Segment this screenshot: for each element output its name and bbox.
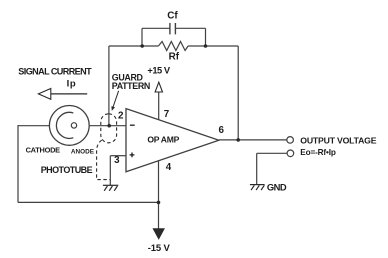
svg-text:PATTERN: PATTERN	[112, 81, 150, 91]
wire: feedback left vertical to node A	[108, 46, 110, 126]
svg-text:7: 7	[164, 109, 170, 120]
svg-text:OUTPUT VOLTAGE: OUTPUT VOLTAGE	[300, 136, 376, 146]
svg-text:ANODE: ANODE	[71, 148, 95, 155]
wire: feedback loop right stub	[205, 28, 207, 46]
svg-text:Ip: Ip	[67, 78, 77, 89]
svg-text:SIGNAL CURRENT: SIGNAL CURRENT	[18, 67, 92, 77]
junction dot -15V rail	[157, 201, 161, 205]
junction dot feedback left	[140, 44, 144, 48]
guard pattern dashed ring	[101, 114, 117, 143]
wire: output	[219, 139, 287, 141]
wire: Eo terminal to ground horizontal	[257, 152, 287, 154]
wire: pin 4 to -15V	[158, 161, 160, 229]
svg-text:OP AMP: OP AMP	[147, 135, 179, 145]
phototube anode circle	[71, 123, 76, 128]
ground (output GND)	[250, 185, 265, 191]
svg-text:+15 V: +15 V	[147, 66, 171, 76]
op-amp minus input symbol	[130, 124, 135, 126]
svg-text:Cf: Cf	[167, 11, 178, 22]
svg-text:PHOTOTUBE: PHOTOTUBE	[41, 165, 93, 175]
wire: pin 3 to ground	[109, 156, 111, 186]
wire: feedback bottom left	[109, 45, 158, 47]
guard pattern dashed tail to ground	[97, 140, 110, 180]
Eo terminal circle	[287, 150, 294, 157]
svg-text:6: 6	[218, 125, 224, 136]
wire: left loop vertical	[17, 125, 19, 202]
op-amp U1	[126, 109, 219, 172]
wire: Eo ground vertical	[256, 153, 258, 184]
svg-text:2: 2	[118, 110, 124, 121]
wire: feedback bottom right	[188, 45, 238, 47]
svg-text:GND: GND	[267, 182, 287, 193]
wire: anode lead to pin 2	[77, 125, 126, 127]
resistor Rf	[158, 42, 188, 51]
wire: pin 3 stub	[110, 155, 126, 157]
svg-text:-15 V: -15 V	[148, 243, 171, 254]
junction dot feedback right	[204, 44, 208, 48]
guard label leader arrowhead	[111, 106, 115, 111]
output terminal circle	[287, 137, 294, 144]
svg-text:CATHODE: CATHODE	[26, 146, 61, 155]
guard label leader line	[113, 91, 119, 107]
signal current Ip arrow	[38, 89, 50, 100]
phototube V1 envelope	[49, 106, 89, 146]
wire: Cf top right segment	[176, 27, 206, 29]
wire: feedback right vertical to output node	[237, 46, 239, 140]
ground (op-amp / guard)	[103, 185, 118, 191]
+15V supply arrow	[155, 82, 162, 92]
-15V supply arrow	[153, 229, 164, 239]
wire: bottom loop horizontal	[18, 201, 159, 203]
svg-text:3: 3	[114, 155, 120, 166]
svg-text:Rf: Rf	[169, 52, 180, 63]
svg-text:Eo=-Rf•Ip: Eo=-Rf•Ip	[300, 148, 336, 157]
wire: Cf top left segment	[142, 27, 170, 29]
capacitor Cf plates	[170, 23, 176, 34]
svg-text:4: 4	[166, 162, 172, 173]
wire: pin 7 to +15V	[158, 92, 160, 120]
junction dot output node	[236, 138, 240, 142]
junction node A (pin 2)	[107, 124, 111, 128]
phototube cathode arc	[56, 112, 73, 138]
wire: cathode lead	[18, 125, 50, 127]
op-amp plus input symbol	[130, 153, 135, 158]
wire: feedback loop left stub	[141, 28, 143, 46]
